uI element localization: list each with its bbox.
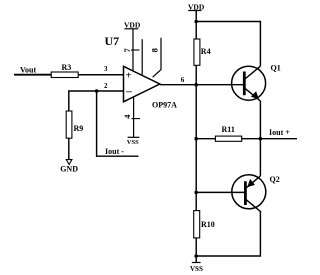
wire bottom rail to Q2 collector xyxy=(196,211,260,256)
svg-text:Q1: Q1 xyxy=(271,64,281,73)
svg-text:VSS: VSS xyxy=(127,139,139,146)
svg-text:R3: R3 xyxy=(62,63,72,72)
power VSS bottom xyxy=(190,263,203,274)
wire R3 to pin 3 xyxy=(78,74,123,76)
wire R9 to GND xyxy=(68,138,70,160)
svg-text:8: 8 xyxy=(150,48,160,52)
wire feedback to Iout- xyxy=(97,91,139,156)
svg-text:2: 2 xyxy=(104,82,108,90)
pin 4 wire xyxy=(133,97,135,138)
wire Q1 emitter to R11 node xyxy=(259,101,261,139)
wire R11 node to Q2 emitter xyxy=(259,139,261,176)
node pin 6 junction xyxy=(194,83,198,87)
resistor R3 xyxy=(51,63,78,78)
wire R10 to VSS xyxy=(195,238,197,263)
wire top rail to Q1 collector xyxy=(196,22,260,67)
pin 4 tick xyxy=(132,118,140,120)
node feedback junction xyxy=(95,89,99,93)
svg-text:Iout -: Iout - xyxy=(105,147,124,156)
svg-text:–: – xyxy=(125,85,132,97)
svg-text:U7: U7 xyxy=(105,34,120,48)
node R11 right junction xyxy=(259,137,263,141)
svg-text:OP97A: OP97A xyxy=(152,101,177,110)
wire mid rail down to R10 xyxy=(195,139,197,211)
node VDD junction xyxy=(194,20,198,24)
pin 1 wire xyxy=(141,39,143,76)
svg-text:R11: R11 xyxy=(222,125,235,134)
svg-text:Iout +: Iout + xyxy=(269,128,290,137)
svg-text:GND: GND xyxy=(60,165,78,174)
svg-text:3: 3 xyxy=(104,65,108,73)
wire Q2 base xyxy=(196,191,245,193)
node R11 left junction xyxy=(194,137,198,141)
power VDD right xyxy=(188,2,205,11)
pin 7 tick xyxy=(131,49,140,51)
pin 8 wire xyxy=(153,38,161,77)
resistor R11 xyxy=(215,125,241,141)
resistor R10 xyxy=(194,211,215,238)
wire Vout input xyxy=(14,74,52,76)
pin 7 wire xyxy=(132,29,134,71)
ground GND xyxy=(60,160,78,174)
transistor Q1 xyxy=(232,64,281,102)
svg-text:+: + xyxy=(126,71,132,82)
resistor R4 xyxy=(194,39,211,65)
power VSS left xyxy=(127,137,140,146)
wire R11 to Iout+ xyxy=(242,138,297,140)
wire op-amp output to Q1 base xyxy=(160,84,245,86)
svg-text:R9: R9 xyxy=(74,124,84,133)
svg-text:6: 6 xyxy=(181,76,185,84)
svg-text:R4: R4 xyxy=(201,47,211,56)
svg-text:R10: R10 xyxy=(201,220,215,229)
wire R4 down to R11 node xyxy=(195,65,197,138)
op-amp U7 xyxy=(105,34,178,110)
wire VDD down to R4 xyxy=(195,11,197,40)
svg-text:7: 7 xyxy=(122,48,132,53)
node VSS junction xyxy=(194,254,198,258)
transistor Q2 xyxy=(232,175,280,212)
wire node to R11 xyxy=(196,138,215,140)
resistor R9 xyxy=(66,111,83,138)
node Q2 base junction xyxy=(194,191,198,195)
svg-text:VSS: VSS xyxy=(190,265,203,273)
power VDD left xyxy=(124,21,141,30)
wire pin 2 xyxy=(69,91,124,111)
svg-text:Q2: Q2 xyxy=(270,175,280,184)
svg-text:Vout: Vout xyxy=(20,65,36,74)
